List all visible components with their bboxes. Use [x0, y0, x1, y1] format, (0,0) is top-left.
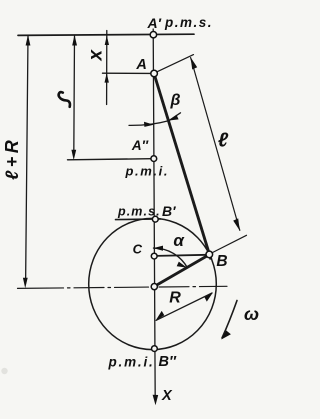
beta angle arc	[129, 113, 181, 126]
svg-text:C: C	[133, 242, 143, 257]
label s (hand-drawn wiggle, rotated)	[59, 92, 70, 107]
connecting rod A-B	[154, 74, 211, 260]
svg-text:B′: B′	[162, 203, 176, 219]
svg-text:p.m.s.: p.m.s.	[164, 15, 213, 30]
faint scan smudge bottom-left	[1, 368, 7, 374]
arrow R lower-left	[156, 311, 165, 321]
arrow x top (up)	[105, 35, 109, 45]
svg-text:ℓ+R: ℓ+R	[2, 137, 22, 180]
node O crank center	[151, 284, 157, 290]
svg-text:β: β	[170, 92, 181, 109]
dimension s vertical line	[73, 36, 76, 155]
dimension x vertical line	[106, 31, 108, 105]
svg-text:ω: ω	[244, 304, 259, 324]
svg-text:R: R	[169, 290, 181, 307]
R dimension line	[156, 293, 212, 320]
dimension l: extension line from B	[213, 235, 247, 252]
svg-text:B″: B″	[159, 354, 177, 370]
dimension l+R vertical line	[26, 36, 28, 283]
svg-text:X: X	[161, 388, 173, 404]
arrowheads	[23, 35, 240, 405]
node A''	[151, 156, 157, 162]
svg-text:p.m.i.: p.m.i.	[108, 355, 155, 370]
node B'	[152, 216, 158, 222]
arrow x at A level (up, outside)	[105, 73, 109, 83]
crank circle	[89, 218, 217, 349]
arrow R upper-right	[205, 292, 214, 301]
arrow beta right (tip on rod)	[169, 115, 179, 121]
arrow alpha bottom (tip on crank)	[177, 262, 187, 268]
arrow beta left (tip on centerline)	[144, 122, 154, 127]
node A'	[150, 32, 156, 38]
line C-B	[157, 255, 208, 256]
svg-text:p.m.i.: p.m.i.	[125, 164, 170, 179]
arrow l+R top (up)	[26, 35, 31, 46]
svg-text:B: B	[216, 253, 227, 270]
node circles	[150, 32, 212, 352]
node A	[151, 70, 158, 77]
arrow l+R bottom (down)	[23, 278, 28, 288]
horizontal crank centerline (dash-dot)	[18, 286, 228, 288]
dimension l: extension line from A	[158, 55, 194, 72]
svg-text:ℓ: ℓ	[218, 130, 229, 152]
arrow omega tip	[221, 330, 231, 339]
node B crank pin	[206, 251, 213, 258]
arrow s top (up)	[72, 35, 77, 46]
extension line at A level	[103, 72, 151, 74]
arrow s bottom (down)	[71, 150, 76, 160]
top dead center line (p.m.s. level through A')	[18, 34, 194, 35]
cylinder axis vertical centerline	[153, 29, 155, 399]
crank O-B	[154, 255, 209, 287]
svg-text:A: A	[135, 57, 146, 73]
svg-text:α: α	[173, 231, 185, 250]
extension line at A'' level (p.m.i. of piston pin)	[68, 159, 152, 160]
alpha angle arc	[154, 248, 188, 268]
svg-text:A″: A″	[131, 138, 149, 153]
arrow alpha top (tip on centerline)	[153, 246, 163, 251]
svg-text:p.m.s.: p.m.s.	[117, 205, 161, 219]
svg-text:x: x	[86, 49, 107, 62]
dimension l line parallel to rod	[191, 58, 240, 231]
arrow X axis bottom (down)	[153, 395, 159, 405]
underline of p.m.s. at B'	[116, 218, 161, 221]
omega rotation arrow arc	[222, 301, 237, 339]
arrow dimension l bottom	[233, 218, 240, 230]
arrow dimension l top	[191, 57, 198, 69]
node B''	[152, 346, 158, 352]
node C	[151, 253, 157, 259]
svg-text:A′: A′	[147, 15, 162, 31]
